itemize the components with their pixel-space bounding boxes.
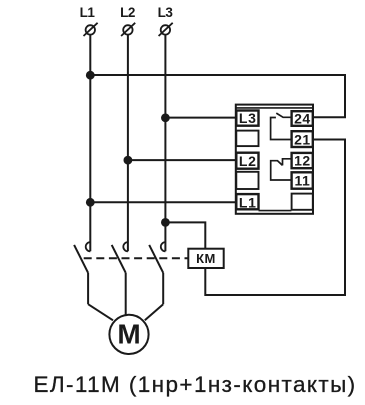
node junction L1 relay [86, 198, 95, 207]
wire to relay L2 [128, 159, 236, 161]
svg-text:24: 24 [294, 110, 311, 126]
svg-text:M: M [117, 319, 140, 350]
wire motor feed right [145, 304, 163, 320]
relay spare box right [292, 194, 313, 210]
relay top divider [236, 107, 313, 109]
relay terminal box 21 [292, 131, 313, 147]
wire KM to terminal 21 [205, 140, 345, 296]
relay spare box left 2 [236, 172, 258, 189]
svg-text:L2: L2 [239, 153, 257, 169]
wire phase A vertical [89, 35, 91, 252]
node junction L2 relay [124, 156, 133, 165]
terminal L1 [86, 25, 95, 34]
coil KM box [188, 249, 223, 268]
relay contact NC 12-11 [271, 161, 292, 180]
wire top loop to terminal 24 [90, 75, 345, 117]
relay terminal box L2 [236, 153, 258, 169]
contactor pole 3 fixed contact arc [161, 242, 166, 251]
contactor pole 3 blade [149, 245, 163, 273]
contactor pole 2 blade [112, 245, 126, 273]
motor M [109, 315, 148, 354]
node junction L3 coil [161, 218, 170, 227]
terminal L2 [123, 25, 132, 34]
contactor pole 1 fixed contact arc [86, 242, 91, 251]
wire to relay L1 [90, 201, 236, 203]
contactor pole 2 lower wire [125, 273, 127, 315]
relay terminal box 12 [292, 153, 313, 168]
wire phase C vertical [164, 35, 166, 252]
contactor pole 1 lower wire [87, 273, 89, 304]
node junction L1 top [86, 71, 95, 80]
svg-text:L1: L1 [80, 5, 96, 20]
svg-text:КМ: КМ [196, 251, 216, 266]
relay contact NO 24-21 [271, 118, 292, 140]
wire to coil KM [165, 222, 205, 248]
wire to relay L3 [165, 117, 235, 119]
contactor pole 3 lower wire [162, 273, 164, 304]
relay spare box left 1 [236, 131, 258, 147]
relay U1 outer housing [236, 105, 313, 214]
relay terminal box 24 [292, 111, 313, 126]
relay terminal box L1 [236, 194, 258, 209]
relay terminal box L3 [236, 111, 258, 126]
svg-text:L3: L3 [239, 110, 257, 126]
svg-text:12: 12 [294, 153, 311, 169]
relay terminal box 11 [292, 172, 313, 188]
node junction L3 relay [161, 113, 170, 122]
svg-text:21: 21 [294, 131, 311, 147]
relay bottom divider [259, 210, 292, 212]
svg-text:L2: L2 [120, 5, 135, 20]
contactor pole 1 blade [74, 245, 88, 273]
svg-text:L1: L1 [239, 194, 257, 210]
contactor linkage dashed line [84, 257, 189, 259]
svg-text:ЕЛ-11М (1нр+1нз-контакты): ЕЛ-11М (1нр+1нз-контакты) [33, 372, 356, 397]
wire phase B vertical [127, 35, 129, 252]
svg-text:L3: L3 [158, 5, 174, 20]
terminal L3 [161, 25, 170, 34]
contactor pole 2 fixed contact arc [123, 242, 128, 251]
svg-text:11: 11 [294, 173, 310, 189]
wire motor feed left [88, 304, 113, 320]
